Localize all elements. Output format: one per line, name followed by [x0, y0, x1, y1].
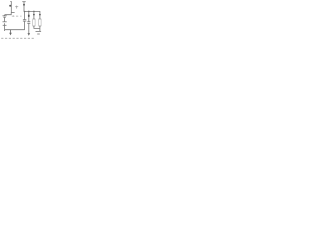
node B: dot on right input lead: [23, 4, 25, 6]
resistor R2 branch: [39, 11, 42, 31]
wire: top rail: [24, 10, 40, 12]
node: rail junction dots: [24, 11, 26, 13]
wire: battery top wire: [5, 13, 12, 15]
terminal: right input with T-bar: [22, 2, 25, 12]
wire: rail stub right of left lead: [11, 12, 15, 14]
ground arrow left: [9, 30, 12, 36]
wire: bottom dashed bus: [1, 37, 34, 39]
battery BT1: [3, 15, 7, 31]
ground arrow right: [28, 33, 31, 36]
node: dot on C2 lead: [28, 14, 30, 17]
wire: middle return rail: [5, 29, 25, 31]
label: small dash near battery: [12, 15, 22, 17]
label: plus sign: [15, 6, 18, 9]
ground symbol right: [36, 31, 42, 34]
wire: left input lead: [10, 1, 11, 12]
node: dot on R1 lead: [33, 14, 35, 16]
node A: left terminal dot: [9, 5, 11, 7]
node: dot on R2 lead: [39, 14, 41, 16]
capacitor C1: [23, 11, 26, 29]
resistor R1 branch: [33, 11, 40, 28]
capacitor C2 branch: [27, 11, 30, 33]
